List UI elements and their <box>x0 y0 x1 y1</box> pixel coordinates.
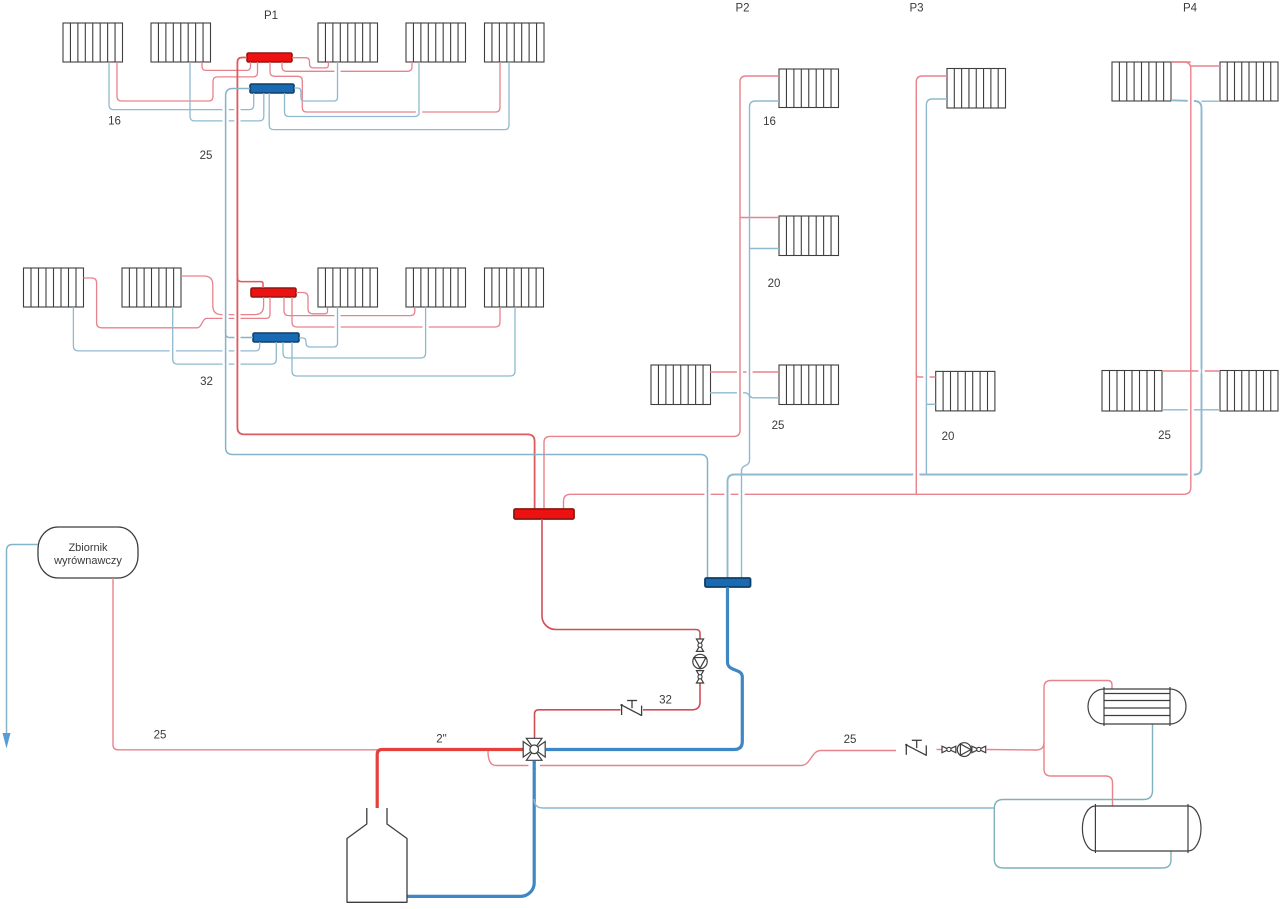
svg-text:2": 2" <box>436 734 446 746</box>
svg-text:Zbiornik: Zbiornik <box>68 542 108 554</box>
svg-text:32: 32 <box>200 376 213 388</box>
svg-text:P1: P1 <box>264 10 278 22</box>
svg-text:32: 32 <box>659 695 672 707</box>
svg-text:16: 16 <box>763 116 776 128</box>
svg-text:P3: P3 <box>909 3 923 15</box>
svg-text:25: 25 <box>200 150 213 162</box>
svg-text:P2: P2 <box>735 3 749 15</box>
svg-text:25: 25 <box>1158 430 1171 442</box>
svg-text:20: 20 <box>942 431 955 443</box>
svg-text:P4: P4 <box>1183 3 1198 15</box>
svg-text:25: 25 <box>844 734 857 746</box>
svg-text:20: 20 <box>768 278 781 290</box>
svg-text:wyrównawczy: wyrównawczy <box>53 555 122 567</box>
svg-text:16: 16 <box>108 116 121 128</box>
svg-text:25: 25 <box>772 420 785 432</box>
svg-text:25: 25 <box>154 730 167 742</box>
